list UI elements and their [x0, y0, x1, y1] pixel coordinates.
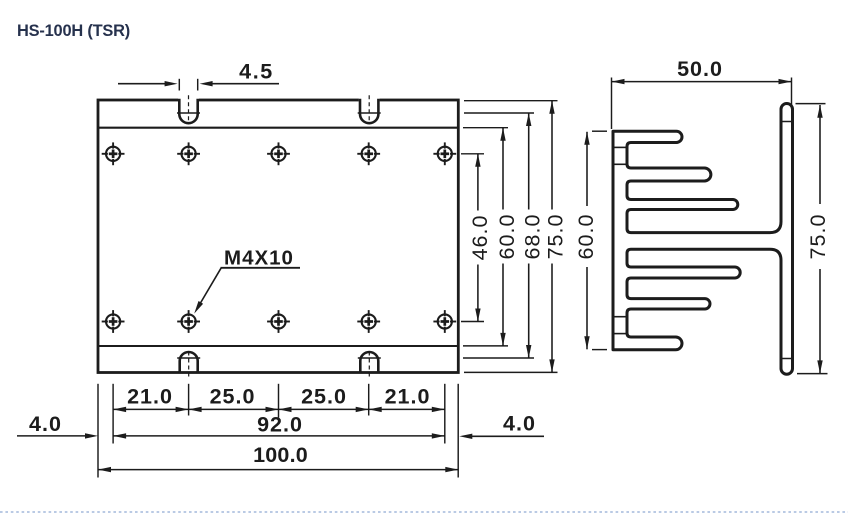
mounting hole H9 — [357, 310, 380, 333]
bottom flange line — [98, 345, 458, 347]
dim 60.0 vertical line lower — [502, 264, 504, 346]
ext line hole H9 — [368, 384, 370, 416]
T-slot line 1 — [613, 146, 627, 148]
dim 50.0 line — [612, 81, 792, 83]
top slot S1 — [179, 99, 197, 123]
mounting hole H6 — [102, 310, 125, 333]
dim 60.0 down arrowhead — [500, 333, 505, 346]
ext line hole H7 — [188, 384, 190, 416]
dim 4.0 right line — [470, 435, 544, 437]
ext line hole H6 — [112, 384, 114, 444]
dim 21.0 line seg4 — [369, 408, 445, 410]
svg-text:21.0: 21.0 — [127, 384, 173, 408]
bottom slot S4 centerline — [368, 352, 370, 378]
dim 4.5 right arrowhead — [200, 81, 213, 86]
svg-text:68.0: 68.0 — [520, 214, 544, 260]
T-slot line 3 — [613, 316, 627, 318]
top slot S2 cross tick — [358, 112, 381, 114]
dim 50.0 left arrowhead — [612, 79, 625, 84]
dim 50.0 right arrowhead — [779, 79, 792, 84]
dim 100.0 left arrowhead — [98, 467, 111, 472]
ext line bottom 75.0 — [464, 371, 558, 373]
ext line bottom 46.0 — [461, 321, 484, 323]
plate outline (front view) — [98, 100, 458, 373]
bottom slot S3 — [180, 352, 198, 372]
side dim 75.0 lower line — [819, 269, 821, 373]
bottom slot S4 — [360, 352, 378, 372]
dim 100.0 line — [98, 469, 458, 471]
bottom slot S3 cross tick — [177, 357, 200, 359]
leader arrowhead — [194, 301, 203, 314]
dim 4.5 right line — [211, 83, 279, 85]
dim 75.0 down arrowhead — [549, 359, 554, 372]
top slot S2 centerline — [368, 95, 370, 120]
dim 4.0 left arrowhead — [85, 433, 98, 438]
dim 21.0 right arrowhead — [432, 407, 445, 412]
ext line top 60.0 — [463, 127, 508, 129]
top slot S2 mask — [359, 98, 380, 110]
svg-text:100.0: 100.0 — [253, 443, 308, 467]
ext line top 68.0 — [464, 112, 534, 114]
side dim 75.0 upper line — [819, 105, 821, 204]
dim 46.0 vertical line upper — [477, 154, 479, 211]
side dim 75.0 down arrowhead — [817, 360, 822, 373]
dim 21.0 line seg1 — [113, 408, 189, 410]
svg-text:50.0: 50.0 — [677, 57, 723, 81]
svg-text:4.0: 4.0 — [29, 412, 62, 436]
dim 92.0 left arrowhead — [113, 433, 126, 438]
dim 4.5 ext tick left — [178, 79, 180, 91]
ext line top 46.0 — [461, 153, 484, 155]
dim 68.0 down arrowhead — [526, 345, 531, 358]
mounting hole H2 — [177, 142, 200, 165]
mounting hole H8 — [267, 310, 290, 333]
heatsink profile (side view) — [613, 103, 793, 374]
dim 25.0 line seg2 — [189, 408, 279, 410]
mounting hole H5 — [433, 142, 456, 165]
svg-text:75.0: 75.0 — [806, 214, 830, 260]
dim 68.0 vertical line lower — [528, 264, 530, 359]
dim 68.0 vertical line upper — [528, 113, 530, 210]
dim 50.0 right ext line — [791, 78, 793, 122]
dim 46.0 vertical line lower — [477, 265, 479, 322]
svg-text:4.0: 4.0 — [503, 411, 536, 435]
side dim 75.0 top tick — [796, 103, 826, 105]
dim 68.0 up arrowhead — [526, 113, 531, 126]
side dim 60.0 lower line — [586, 267, 588, 349]
dim 4.0 left line — [17, 435, 87, 437]
dim 21.0 right arrowhead — [176, 407, 189, 412]
svg-text:25.0: 25.0 — [210, 384, 256, 408]
dim 46.0 down arrowhead — [475, 309, 480, 322]
base bar split line bottom — [781, 358, 793, 360]
side dim 75.0 bottom tick — [797, 373, 828, 375]
top slot S1 centerline — [188, 95, 190, 120]
svg-text:75.0: 75.0 — [544, 214, 568, 260]
dim 25.0 left arrowhead — [279, 407, 292, 412]
top slot S2 — [360, 99, 378, 124]
bottom slot S4 cross tick — [358, 357, 381, 359]
page divider dotted line — [0, 511, 848, 513]
svg-text:HS-100H (TSR): HS-100H (TSR) — [17, 22, 130, 40]
ext line plate-left — [97, 384, 99, 478]
side dim 75.0 up arrowhead — [817, 105, 822, 118]
dim 21.0 left arrowhead — [113, 407, 126, 412]
T-slot line 2 — [613, 163, 627, 165]
svg-text:92.0: 92.0 — [257, 413, 303, 437]
top slot S1 mask — [178, 98, 199, 110]
ext line bottom 68.0 — [463, 357, 534, 359]
dim 75.0 vertical line lower — [551, 264, 553, 373]
mounting hole H1 — [102, 142, 125, 165]
side dim 60.0 down arrowhead — [584, 336, 589, 349]
svg-text:4.5: 4.5 — [239, 60, 274, 84]
dim 92.0 line — [113, 435, 445, 437]
dim 25.0 left arrowhead — [189, 407, 202, 412]
svg-text:46.0: 46.0 — [468, 215, 492, 261]
dim 75.0 vertical line upper — [551, 101, 553, 210]
svg-text:60.0: 60.0 — [574, 214, 598, 260]
label M4X10 underline — [221, 267, 301, 269]
base bar split line top — [781, 121, 793, 123]
dim 21.0 left arrowhead — [369, 407, 382, 412]
dim 4.5 left arrowhead — [165, 81, 178, 86]
dim 25.0 right arrowhead — [356, 407, 369, 412]
side dim 60.0 bottom tick — [592, 349, 607, 351]
dim 60.0 vertical line upper — [502, 128, 504, 210]
dim 46.0 up arrowhead — [475, 154, 480, 167]
ext line plate-right — [457, 384, 459, 478]
leader line to hole H7 — [198, 268, 222, 308]
side dim 60.0 top tick — [592, 130, 607, 132]
svg-text:25.0: 25.0 — [301, 384, 347, 408]
svg-text:60.0: 60.0 — [495, 214, 519, 260]
dim 50.0 left ext line — [611, 78, 613, 130]
svg-text:M4X10: M4X10 — [224, 246, 294, 269]
ext line top 75.0 — [464, 100, 558, 102]
side dim 60.0 upper line — [586, 132, 588, 206]
ext line hole H10 — [444, 384, 446, 444]
svg-text:21.0: 21.0 — [385, 384, 431, 408]
dim 25.0 right arrowhead — [266, 407, 279, 412]
ext line bottom 60.0 — [463, 345, 508, 347]
dim 75.0 up arrowhead — [549, 101, 554, 114]
side dim 60.0 up arrowhead — [584, 132, 589, 145]
mounting hole H3 — [267, 142, 290, 165]
dim 4.0 right arrowhead — [459, 434, 472, 439]
dim 100.0 right arrowhead — [445, 467, 458, 472]
ext line hole H8 — [278, 384, 280, 418]
dim 4.5 left line — [118, 83, 166, 85]
T-slot line 4 — [613, 333, 627, 335]
mounting hole H4 — [357, 142, 380, 165]
dim 25.0 line seg3 — [279, 408, 369, 410]
mounting hole H7 — [177, 310, 200, 333]
dim 60.0 up arrowhead — [500, 128, 505, 141]
mounting hole H10 — [433, 310, 456, 333]
dim 92.0 right arrowhead — [432, 433, 445, 438]
dim 4.5 ext tick right — [197, 79, 199, 91]
top slot S1 cross tick — [177, 112, 200, 114]
top flange line — [98, 127, 458, 129]
bottom slot S3 centerline — [188, 352, 190, 378]
